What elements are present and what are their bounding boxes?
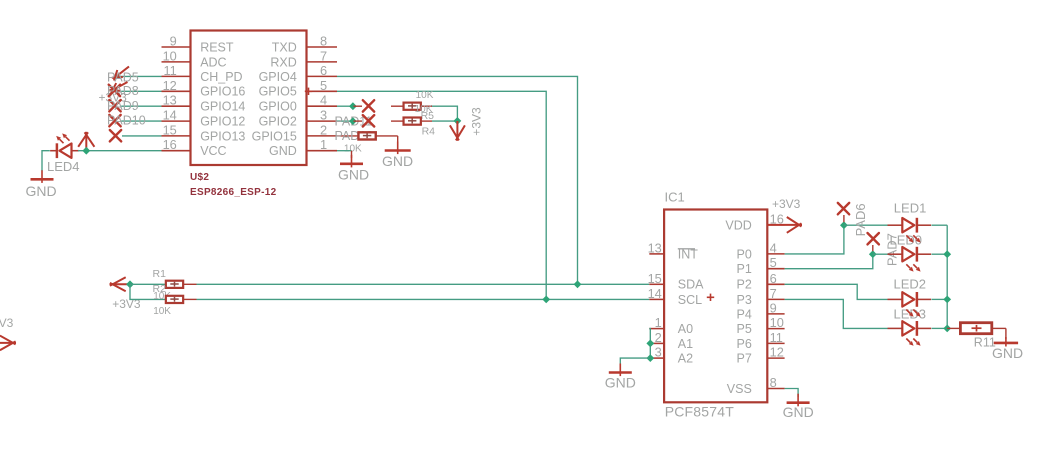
- svg-text:GPIO4: GPIO4: [259, 70, 297, 84]
- svg-text:IC1: IC1: [665, 190, 685, 205]
- svg-text:+3V3: +3V3: [772, 197, 801, 211]
- PCF right pin 5 (P1) stub: [767, 268, 784, 270]
- svg-text:10: 10: [770, 315, 784, 330]
- svg-text:12: 12: [163, 78, 177, 93]
- junction dot bus/LED2: [943, 296, 951, 304]
- PCF right pin 8 (VSS) stub: [767, 388, 784, 390]
- wire LED4 anode to VCC pin 16: [78, 150, 162, 152]
- wire GPIO4 pin 6 to SDA net: [337, 76, 578, 284]
- wire VSS pin 8 to ground: [785, 389, 799, 398]
- PCF left pin 15 (SDA) stub: [649, 283, 664, 285]
- svg-text:P7: P7: [737, 352, 752, 366]
- svg-text:PCF8574T: PCF8574T: [665, 403, 735, 419]
- wire GPIO2 pin 3 stub to pad: [337, 120, 353, 122]
- ground symbol below VSS: [797, 394, 799, 407]
- svg-text:ADC: ADC: [200, 55, 226, 69]
- wire GPIO16 pin 12: [121, 90, 161, 92]
- svg-text:13: 13: [163, 93, 177, 108]
- svg-text:LED2: LED2: [894, 277, 927, 292]
- lead pin2 resistor to GND: [376, 135, 398, 137]
- svg-text:U$2: U$2: [190, 172, 209, 183]
- wire R5 to +3V3: [432, 106, 457, 121]
- svg-text:GND: GND: [605, 375, 636, 391]
- PCF left pin 3 (A2) stub: [649, 357, 664, 359]
- svg-text:9: 9: [170, 34, 177, 49]
- svg-text:GND: GND: [382, 153, 413, 169]
- pad pin red lead row 4: [354, 105, 363, 107]
- wire A2 to ground: [620, 358, 649, 366]
- svg-text:LED4: LED4: [47, 159, 80, 174]
- svg-text:4: 4: [320, 93, 327, 108]
- resistor R1 10K (SDA pullup): [166, 281, 183, 288]
- junction dot SCL/GPIO5: [542, 296, 550, 304]
- PCF8574T IC1 box: [664, 210, 767, 403]
- svg-text:A1: A1: [678, 337, 693, 351]
- svg-text:8: 8: [320, 34, 327, 49]
- wire LED1 cathode to bus: [932, 224, 948, 226]
- pad PAD7 pin lead: [872, 245, 874, 251]
- svg-text:REST: REST: [200, 40, 234, 54]
- PCF right pin 16 (VDD) stub: [767, 224, 784, 226]
- svg-text:PAD8: PAD8: [107, 84, 139, 98]
- wire A0-A1-A2 junction bus: [649, 329, 650, 359]
- svg-text:9: 9: [770, 300, 777, 315]
- red + marker at SCL pin: [707, 296, 714, 298]
- svg-text:10K: 10K: [415, 104, 433, 115]
- svg-text:16: 16: [163, 137, 177, 152]
- PCF right pin 6 (P2) stub: [767, 283, 784, 285]
- +3V3 supply arrow at LED4 node: [85, 132, 87, 151]
- no-connect X PAD8 on pin 12: [109, 85, 120, 96]
- resistor R5 10K on pin 4 row: [391, 105, 404, 107]
- resistor 10K on pin 2 row: [358, 132, 375, 139]
- svg-text:ESP8266_ESP-12: ESP8266_ESP-12: [190, 187, 277, 198]
- svg-text:2: 2: [655, 330, 662, 345]
- svg-text:3: 3: [320, 108, 327, 123]
- ESP left pin 12 (GPIO16) stub: [162, 90, 191, 92]
- junction dot pin 3: [349, 117, 357, 125]
- no-connect X PAD9 on pin 13: [109, 100, 120, 111]
- svg-text:TXD: TXD: [272, 40, 297, 54]
- svg-text:RXD: RXD: [270, 55, 296, 69]
- supply arrow at pin 11 wire end: [113, 67, 129, 79]
- red + marker at GPIO5 pin: [305, 90, 312, 92]
- supply arrow at pin 12 wire end: [111, 82, 128, 91]
- ESP left pin 15 (GPIO13) stub: [162, 135, 191, 137]
- svg-text:5: 5: [320, 78, 327, 93]
- PCF right pin 4 (P0) stub: [767, 253, 784, 255]
- svg-text:7: 7: [770, 286, 777, 301]
- svg-text:15: 15: [163, 122, 177, 137]
- svg-text:SCL: SCL: [678, 293, 702, 307]
- junction dot bus/LED0: [943, 250, 951, 258]
- svg-text:VDD: VDD: [725, 218, 751, 232]
- svg-text:PAD5: PAD5: [107, 71, 139, 85]
- pad pin red lead row 3: [354, 120, 363, 122]
- svg-text:11: 11: [770, 330, 783, 345]
- PCF left pin 13 (INT) stub: [649, 253, 664, 255]
- wire CH_PD pin 11: [115, 75, 161, 77]
- ESP right pin 1 (GND) stub: [307, 150, 338, 152]
- svg-text:12: 12: [770, 345, 784, 360]
- svg-text:P3: P3: [737, 293, 752, 307]
- svg-text:+3V3: +3V3: [469, 107, 483, 136]
- svg-text:CH_PD: CH_PD: [200, 70, 242, 84]
- junction dot P1/PAD7/LED0: [869, 250, 877, 258]
- svg-text:GND: GND: [269, 144, 297, 158]
- LED LED3: [902, 321, 914, 335]
- junction dot SDA/GPIO4: [574, 280, 582, 288]
- wire P2 to LED2 anode: [785, 284, 888, 299]
- ESP right pin 5 (GPIO5) stub: [307, 90, 338, 92]
- ESP right pin 4 (GPIO0) stub: [307, 105, 338, 107]
- LED LED2: [902, 292, 914, 306]
- svg-text:GPIO0: GPIO0: [259, 100, 297, 114]
- PCF left pin 1 (A0) stub: [649, 328, 664, 330]
- ESP right pin 7 (RXD) stub: [307, 61, 338, 63]
- PCF right pin 7 (P3) stub: [767, 298, 784, 300]
- svg-text:6: 6: [320, 63, 327, 78]
- wire to LED1 anode: [844, 224, 888, 226]
- svg-text:14: 14: [163, 108, 177, 123]
- ground symbol below pin 1: [351, 155, 353, 168]
- PCF right pin 10 (P5) stub: [767, 328, 784, 330]
- svg-text:GND: GND: [338, 166, 369, 182]
- svg-text:VSS: VSS: [727, 382, 752, 396]
- svg-text:10: 10: [163, 48, 177, 63]
- svg-text:P4: P4: [737, 307, 752, 321]
- svg-text:R4: R4: [422, 126, 436, 138]
- svg-text:10K: 10K: [153, 306, 171, 317]
- no-connect X PAD7: [868, 233, 879, 244]
- ESP left pin 11 (CH_PD) stub: [162, 75, 191, 77]
- svg-text:GPIO15: GPIO15: [252, 129, 297, 143]
- svg-text:1: 1: [320, 137, 327, 152]
- svg-text:10K: 10K: [344, 144, 362, 155]
- ground symbol below LED4: [41, 170, 43, 183]
- pad PAD6 pin lead: [843, 215, 845, 222]
- SCL net wire to PCF8574: [197, 298, 650, 300]
- svg-text:PAD10: PAD10: [107, 114, 146, 128]
- LED3 light arrows: [906, 339, 910, 343]
- ESP8266 module U$2 box: [191, 31, 307, 166]
- junction dot bus/LED3/R11: [943, 325, 951, 333]
- wire LED4 cathode to GND corner: [42, 151, 50, 171]
- ground symbol below pin 2 resistor: [397, 142, 399, 155]
- junction dot A1: [646, 340, 654, 348]
- LED LED1: [902, 218, 914, 232]
- ESP right pin 2 (GPIO15) stub: [307, 135, 338, 137]
- resistor R11: [947, 327, 960, 329]
- LED LED0: [902, 247, 914, 261]
- svg-text:+3V3: +3V3: [0, 316, 14, 330]
- lead R11 to ground: [992, 327, 1006, 329]
- wire R4 to +3V3: [432, 120, 457, 122]
- svg-text:GPIO12: GPIO12: [200, 115, 245, 129]
- wire P1 to LED0 node: [785, 254, 873, 269]
- ESP right pin 6 (GPIO4) stub: [307, 75, 338, 77]
- svg-text:PAD9: PAD9: [107, 99, 139, 113]
- LED D4 (LED4) pointing left: [60, 144, 72, 158]
- wire LED2 cathode to bus: [932, 298, 948, 300]
- PCF left pin 2 (A1) stub: [649, 342, 664, 344]
- junction dot pin 4: [349, 102, 357, 110]
- svg-text:4: 4: [770, 240, 777, 255]
- no-connect X pad on pin 4: [363, 100, 374, 111]
- svg-text:R1: R1: [153, 268, 167, 280]
- wire to R1: [130, 283, 166, 285]
- wire down to R2 row: [130, 284, 166, 299]
- ESP left pin 9 (REST) stub: [162, 46, 191, 48]
- svg-text:A0: A0: [678, 322, 693, 336]
- no-connect X PAD6: [838, 203, 849, 214]
- svg-text:GND: GND: [783, 404, 814, 420]
- ground symbol right of R11: [1005, 337, 1007, 347]
- svg-text:LED1: LED1: [894, 200, 927, 215]
- INT overline: [678, 248, 695, 250]
- +3V3 arrow left of R1/R2: [110, 283, 131, 285]
- junction dot +3V3 node: [454, 117, 462, 125]
- PCF right pin 12 (P7) stub: [767, 357, 784, 359]
- svg-text:GPIO13: GPIO13: [200, 129, 245, 143]
- cathode bus vertical wire: [946, 225, 948, 328]
- svg-text:8: 8: [770, 375, 777, 390]
- svg-text:2: 2: [320, 122, 327, 137]
- svg-text:13: 13: [648, 240, 662, 255]
- ESP right pin 3 (GPIO2) stub: [307, 120, 338, 122]
- PCF right pin 9 (P4) stub: [767, 313, 784, 315]
- wire GPIO13 pin 15: [122, 135, 162, 137]
- no-connect X PAD10 on pin 14: [109, 115, 120, 126]
- PCF right pin 11 (P6) stub: [767, 342, 784, 344]
- LED1 light arrows: [906, 235, 910, 239]
- wire GND pin 1: [337, 150, 352, 152]
- svg-text:10K: 10K: [416, 90, 434, 101]
- clipped supply arrow at left edge: [0, 342, 16, 344]
- wire P0 to LED1 node: [785, 225, 844, 254]
- svg-text:VCC: VCC: [200, 144, 226, 158]
- svg-text:A2: A2: [678, 352, 693, 366]
- svg-text:1: 1: [655, 315, 662, 330]
- PCF left pin 14 (SCL) stub: [649, 298, 664, 300]
- junction dot +3V3/R1/R2: [126, 280, 134, 288]
- svg-text:P6: P6: [737, 337, 752, 351]
- svg-text:7: 7: [320, 48, 327, 63]
- wire GPIO0 pin 4 stub to pad: [337, 105, 353, 107]
- svg-text:6: 6: [770, 271, 777, 286]
- ground symbol for A0-A2: [619, 364, 621, 377]
- svg-text:PAD6: PAD6: [853, 203, 868, 236]
- ESP right pin 8 (TXD) stub: [307, 46, 338, 48]
- wire to LED0 anode: [873, 253, 888, 255]
- svg-text:GPIO5: GPIO5: [259, 85, 297, 99]
- svg-text:SDA: SDA: [678, 278, 704, 292]
- ESP left pin 13 (GPIO14) stub: [162, 105, 191, 107]
- LED4 light arrows: [60, 139, 64, 143]
- svg-text:GND: GND: [992, 345, 1023, 361]
- junction dot LED4/+3V3/VCC: [82, 147, 90, 155]
- wire GPIO15 pin 2 lead: [337, 135, 359, 137]
- ESP left pin 14 (GPIO12) stub: [162, 120, 191, 122]
- wire LED0 cathode to bus: [932, 253, 948, 255]
- resistor R4 10K on pin 3 row: [391, 120, 404, 122]
- junction dot A2: [646, 354, 654, 362]
- wire P3 to LED3 anode: [785, 299, 888, 328]
- svg-text:GPIO2: GPIO2: [259, 115, 297, 129]
- svg-text:15: 15: [648, 271, 662, 286]
- svg-text:P5: P5: [737, 322, 752, 336]
- +3V3 supply arrow at VDD pin 16: [767, 224, 802, 226]
- resistor R2 10K (SCL pullup): [166, 296, 183, 303]
- wire GPIO5 pin 5 to SCL net: [337, 91, 546, 299]
- svg-text:5: 5: [770, 255, 777, 270]
- svg-text:GPIO16: GPIO16: [200, 85, 245, 99]
- lead pin1 to ground: [351, 151, 353, 158]
- svg-text:3: 3: [655, 345, 662, 360]
- svg-text:14: 14: [648, 286, 662, 301]
- no-connect X pad on pin 3: [363, 115, 374, 126]
- wire GPIO14 pin 13: [121, 105, 161, 107]
- svg-text:GPIO14: GPIO14: [200, 100, 245, 114]
- wire GPIO12 pin 14: [121, 120, 161, 122]
- junction dot P0/PAD6/LED1: [840, 221, 848, 229]
- SDA net wire to PCF8574: [197, 283, 650, 285]
- svg-text:11: 11: [164, 63, 177, 78]
- wire LED3 cathode to bus: [932, 327, 948, 329]
- LED0 light arrows: [906, 264, 910, 268]
- ESP left pin 16 (VCC) stub: [162, 150, 191, 152]
- no-connect X on pin 15: [110, 130, 121, 141]
- svg-text:P0: P0: [737, 247, 752, 261]
- svg-text:GND: GND: [25, 183, 56, 199]
- svg-text:P1: P1: [737, 262, 752, 276]
- svg-text:P2: P2: [737, 278, 752, 292]
- LED2 light arrows: [906, 310, 910, 314]
- +3V3 supply arrow pointing down: [456, 121, 458, 141]
- ESP left pin 10 (ADC) stub: [162, 61, 191, 63]
